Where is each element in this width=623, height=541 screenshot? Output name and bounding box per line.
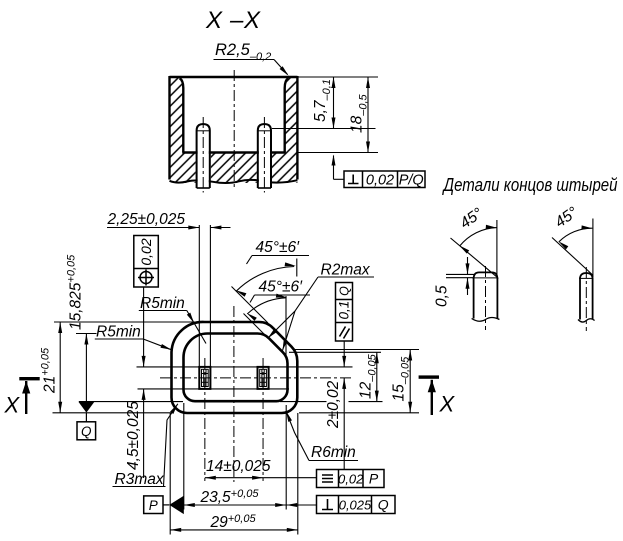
svg-text:Q: Q xyxy=(81,424,92,439)
R2max arrows xyxy=(268,329,277,338)
section pin 1 dome xyxy=(197,124,210,131)
detail pin 1 break line xyxy=(472,318,500,322)
svg-text:R6min: R6min xyxy=(311,444,356,461)
perpendicular symbol 2 xyxy=(322,499,333,510)
R5min upper leader xyxy=(187,311,206,344)
svg-text:0,02: 0,02 xyxy=(366,172,394,188)
ext line inner bottom (left) xyxy=(79,401,183,403)
section pin 2 bottom end xyxy=(258,187,271,189)
plan pin 1 (hatched contact) xyxy=(199,367,210,389)
frame position 0,02 box xyxy=(134,236,159,288)
R3max leader xyxy=(164,404,178,487)
svg-text:45°±6′: 45°±6′ xyxy=(256,239,301,256)
dim 5,7 arrow up xyxy=(332,77,336,88)
detail pin 2 cap xyxy=(580,273,593,279)
svg-text:0,5: 0,5 xyxy=(434,285,451,307)
detail pin 1 body xyxy=(474,278,498,319)
ext line floor level xyxy=(297,152,378,154)
ext line inner bottom (right) xyxy=(280,401,327,403)
R2,5 leader shelf xyxy=(214,59,275,61)
cavity floor line xyxy=(182,151,285,153)
section pin 1 body xyxy=(197,131,210,189)
frame symmetry leader xyxy=(263,477,316,479)
R2max leader xyxy=(268,277,319,339)
section bottom break line (wavy) xyxy=(170,180,298,183)
detail 2 angle arc xyxy=(559,228,593,242)
detail 1 angle arrows xyxy=(486,225,497,229)
section pin 2 white body xyxy=(259,126,270,188)
white pin holes through bottom slab xyxy=(196,152,211,188)
svg-text:X –X: X –X xyxy=(205,7,261,34)
ext line top face xyxy=(297,76,378,78)
right wall inner edge with R2,5 lead-in xyxy=(285,78,289,152)
plan outer outline xyxy=(172,322,298,413)
section pin 2 shoulder line xyxy=(258,130,271,132)
detail pin 2 centerline xyxy=(585,267,587,331)
dim 18 arrow down xyxy=(366,142,370,153)
detail 1 angle arc xyxy=(460,228,497,246)
dim 21 line xyxy=(59,322,61,413)
ext line inner left down xyxy=(183,403,185,510)
svg-text:X: X xyxy=(4,393,21,418)
svg-text:R5min: R5min xyxy=(96,324,141,341)
R2,5 leader arrow xyxy=(280,66,289,75)
svg-text:Детали концов штырей: Детали концов штырей xyxy=(442,175,618,195)
svg-text:R2max: R2max xyxy=(321,262,371,279)
svg-text:2±0,02: 2±0,02 xyxy=(325,380,342,429)
svg-text:14±0,025: 14±0,025 xyxy=(206,458,271,475)
plan inner outline xyxy=(184,334,288,402)
datum P triangle xyxy=(163,504,169,506)
section pin 1 bottom end xyxy=(197,187,210,189)
svg-text:R5min: R5min xyxy=(140,295,185,312)
detail 2 angle arrows xyxy=(581,225,592,229)
dim 2,25 line right xyxy=(210,227,230,229)
section pin 1 centerline xyxy=(202,117,204,193)
R5min lower shelf xyxy=(95,338,143,340)
section pin 2 body xyxy=(258,131,271,189)
svg-text:2,25±0,025: 2,25±0,025 xyxy=(107,211,186,228)
plan pin 2 (hatched contact) xyxy=(258,367,269,389)
section mark X left arrow xyxy=(25,381,27,414)
R3max shelf xyxy=(113,486,166,488)
ext tick inner top xyxy=(76,333,97,335)
section mark X left bar xyxy=(19,377,39,380)
R6min leader xyxy=(286,411,309,461)
R2,5 leader slant xyxy=(274,60,288,75)
detail pin 1 cap xyxy=(474,272,498,279)
dim 45 upper arc xyxy=(236,267,294,292)
section mark X right bar xyxy=(419,375,439,378)
dim 45 lower arc xyxy=(247,298,285,314)
svg-text:Q: Q xyxy=(338,286,352,296)
dim 15 line xyxy=(409,350,411,413)
svg-text:0,02: 0,02 xyxy=(338,471,364,486)
ext line pin top level xyxy=(272,128,376,130)
position symbol (circle-cross) xyxy=(140,272,152,284)
R5min lower leader xyxy=(143,339,171,350)
plan vertical centerline xyxy=(233,306,235,482)
section pin 1 white body xyxy=(198,126,209,188)
svg-text:45°±6′: 45°±6′ xyxy=(259,279,304,296)
detail 1 vertical ext line xyxy=(496,220,498,277)
dim 23,5 line xyxy=(184,504,286,506)
dim 2 line lower xyxy=(343,378,345,470)
symmetry symbol xyxy=(322,475,333,482)
detail pin 2 break line xyxy=(578,319,595,322)
svg-text:P/Q: P/Q xyxy=(399,172,424,188)
frame perpendicularity Q leader xyxy=(286,504,316,506)
left wall outer edge xyxy=(168,76,170,180)
section pin 2 dome xyxy=(258,124,271,131)
svg-text:Q: Q xyxy=(378,497,389,513)
ext line pin top xyxy=(137,366,353,368)
dim 29 line xyxy=(170,529,298,531)
datum P box xyxy=(144,496,163,514)
frame perpendicularity 0,02 P/Q box xyxy=(344,171,425,188)
ext line plan top (left) xyxy=(54,321,205,323)
section mark X right arrow xyxy=(431,380,433,415)
dim 12 line xyxy=(376,352,378,401)
dim 4,5 lower line xyxy=(143,389,145,478)
ext line inner right down xyxy=(285,405,287,510)
dim 5,7-0,1 line xyxy=(333,77,335,129)
plan horizontal centerline xyxy=(160,377,353,379)
section main centerline xyxy=(233,70,235,189)
section pin 1 shoulder line xyxy=(197,130,210,132)
frame perpendicularity Q box xyxy=(317,496,396,514)
dim 15,825 line xyxy=(85,334,87,402)
chamfer extension line outer xyxy=(232,287,269,324)
detail 2 chamfer 45 line xyxy=(552,238,593,275)
detail 1 dim 0,5 ext lines xyxy=(446,273,474,275)
dim 45 lower shelf xyxy=(255,294,311,296)
R2max shelf xyxy=(318,276,374,278)
frame symmetry box xyxy=(317,470,385,488)
detail 1 dim 0,5 arrows xyxy=(467,257,469,274)
dim 2,25 line left xyxy=(107,227,199,229)
detail pin 1 centerline xyxy=(485,266,487,330)
ext line outer bottom (left) xyxy=(53,412,172,414)
left wall inner edge with R2,5 lead-in xyxy=(180,78,184,152)
dim 18 arrow up xyxy=(366,77,370,88)
svg-text:P: P xyxy=(149,498,158,513)
ext line outer right down xyxy=(297,413,299,535)
datum Q box xyxy=(77,422,96,440)
plan pin 2 centerline xyxy=(262,358,264,481)
frame parallelism box xyxy=(336,283,353,342)
ext line corner level outer xyxy=(293,349,419,351)
detail 2 vertical ext line xyxy=(592,219,594,278)
svg-text:4,5±0,025: 4,5±0,025 xyxy=(125,401,142,470)
svg-text:0,025: 0,025 xyxy=(339,497,372,512)
detail 1 chamfer 45 line xyxy=(451,238,498,277)
ext line outer bottom (right) xyxy=(299,412,419,414)
dim 18-0,5 line xyxy=(367,77,369,153)
svg-text:0,02: 0,02 xyxy=(138,238,154,265)
datum Q triangle (bottom of 15,825 line) xyxy=(78,402,94,413)
ext line right edge up (outer tick) xyxy=(296,259,298,277)
dim 45 upper arrows xyxy=(285,262,296,266)
detail pin 2 body xyxy=(580,278,593,320)
frame parallelism leader xyxy=(343,341,345,367)
svg-text:P: P xyxy=(369,471,379,487)
section top face line xyxy=(170,76,298,78)
R6min shelf xyxy=(309,460,358,462)
section pin 2 centerline xyxy=(263,117,265,193)
frame position leader / dim 4,5 upper xyxy=(143,287,145,367)
ext line corner level inner xyxy=(289,351,381,353)
dim 2,25 ext lines xyxy=(198,225,200,366)
dim 45 lower arrows xyxy=(276,294,287,298)
perpendicular symbol xyxy=(348,175,359,184)
plan pin 1 centerline xyxy=(204,358,206,481)
ext line outer left down xyxy=(169,413,171,535)
dim 45 upper shelf xyxy=(252,255,309,257)
dim 5,7 arrow down xyxy=(332,118,336,129)
svg-text:R3max: R3max xyxy=(115,471,165,488)
R5min upper shelf xyxy=(139,310,187,312)
svg-text:0,1: 0,1 xyxy=(337,301,352,320)
ext line inner edge up xyxy=(285,296,287,356)
frame perpendicularity 0,02 P/Q leader xyxy=(333,156,335,180)
ext line pin bottom xyxy=(138,388,290,390)
parallel symbol xyxy=(340,327,350,339)
chamfer extension line inner xyxy=(244,314,265,335)
dim 14 line xyxy=(205,477,263,479)
right wall outer edge xyxy=(296,76,298,180)
svg-text:X: X xyxy=(439,392,456,417)
